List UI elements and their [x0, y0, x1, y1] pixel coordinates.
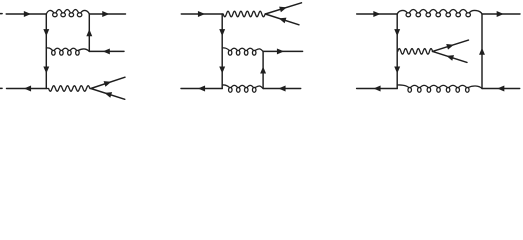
D2 up arrow on right vertical — [260, 66, 266, 73]
D1 antiquark line middle-right — [89, 50, 124, 52]
fermion pair lower branch — [91, 89, 125, 100]
fermion pair lower branch — [433, 51, 468, 62]
D2 gluon middle — [228, 50, 232, 55]
D1 gluon top — [53, 13, 58, 17]
D2 left arrow on bottom-right line — [278, 86, 285, 92]
D3 antiquark line bottom-right — [482, 88, 519, 90]
arrow on upper branch (outgoing) — [279, 7, 287, 13]
D2 antiquark line bottom-left — [181, 88, 222, 90]
D3 left vertical quark propagator — [396, 14, 398, 89]
fermion pair upper branch — [265, 3, 301, 14]
D3 down arrow upper on left vertical — [394, 29, 400, 36]
arrow on lower branch (incoming) — [446, 55, 454, 61]
D1 right vertical quark propagator — [88, 14, 90, 51]
fermion pair upper branch — [433, 40, 469, 51]
D2 right arrow on middle-right line — [277, 48, 284, 54]
arrow on upper branch (outgoing) — [446, 44, 454, 50]
fermion pair upper branch — [91, 77, 125, 88]
D2 left vertical quark propagator — [221, 14, 223, 89]
D2 antiquark line bottom-right — [263, 88, 300, 90]
D1 arrow on top-left quark — [24, 11, 31, 17]
D3 antiquark line bottom-left — [357, 88, 398, 90]
D3 photon wavy line middle — [397, 49, 432, 55]
D1 gluon middle — [52, 50, 56, 55]
D3 incoming quark line top-left — [357, 13, 398, 15]
arrow on lower branch (incoming) — [279, 18, 287, 24]
D1 arrow on top-right quark — [102, 11, 109, 17]
D2 photon wavy line top — [222, 11, 265, 17]
D1 down arrow lower on left vertical — [43, 66, 49, 73]
D2 down arrow lower on left vertical — [219, 66, 225, 73]
edge fragment bottom-left — [0, 87, 2, 89]
D3 up arrow on right vertical — [479, 48, 485, 55]
D1 down arrow upper on left vertical — [43, 29, 49, 36]
D2 left arrow on bottom-left line — [198, 86, 205, 92]
D3 arrow on top-right quark — [497, 11, 504, 17]
arrow on lower branch (incoming) — [104, 92, 112, 98]
D1 left vertical quark propagator — [45, 14, 47, 89]
D2 quark line middle-right — [263, 50, 303, 52]
D1 left arrow on middle-right line — [103, 48, 110, 54]
D1 left arrow on bottom-left line — [24, 86, 31, 92]
D2 gluon bottom — [229, 87, 233, 92]
D3 down arrow lower on left vertical — [394, 66, 400, 73]
D1 incoming quark line top-left — [6, 13, 46, 15]
D3 gluon top — [406, 13, 411, 17]
D1 up arrow on right vertical — [86, 29, 92, 36]
D3 outgoing quark line top-right — [482, 13, 520, 15]
D2 arrow on top-left quark — [198, 11, 205, 17]
D1 antiquark line bottom-left — [7, 88, 47, 90]
arrow on upper branch (outgoing) — [104, 81, 112, 87]
D3 left arrow on bottom-left line — [373, 86, 380, 92]
edge fragment top-left — [0, 13, 2, 15]
D1 outgoing quark line top-right — [89, 13, 125, 15]
D2 incoming quark line top-left — [181, 13, 222, 15]
fermion pair lower branch — [265, 14, 299, 25]
D2 down arrow upper on left vertical — [219, 29, 225, 36]
D3 gluon bottom — [408, 87, 412, 92]
D2 right vertical quark propagator — [262, 51, 264, 88]
D3 arrow on top-left quark — [373, 11, 380, 17]
D3 left arrow on bottom-right line — [497, 86, 504, 92]
D1 photon wavy line bottom — [46, 86, 91, 92]
D3 right vertical quark propagator — [481, 14, 483, 89]
